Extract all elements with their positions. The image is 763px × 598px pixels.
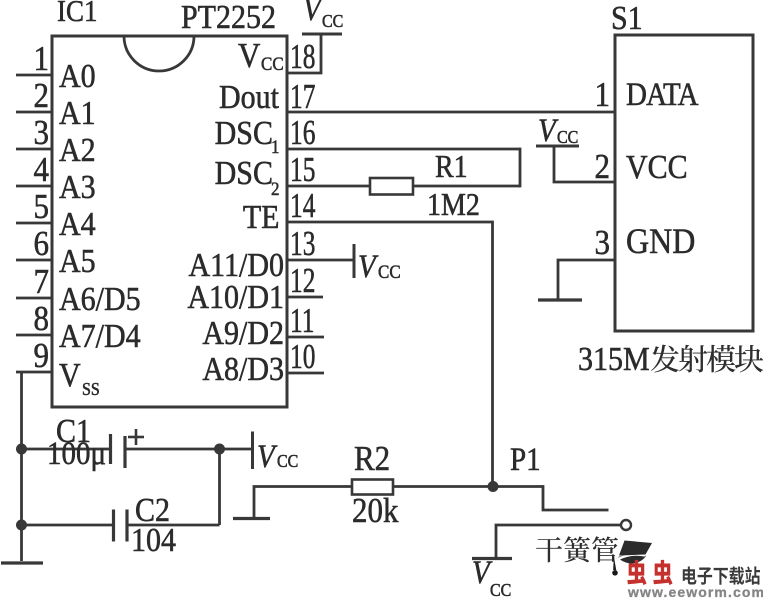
resistor R2 body xyxy=(352,480,393,495)
svg-text:7: 7 xyxy=(34,263,49,301)
svg-text:104: 104 xyxy=(131,521,176,558)
svg-text:GND: GND xyxy=(626,222,695,261)
wire TE(14) horizontal xyxy=(287,221,493,224)
svg-text:16: 16 xyxy=(290,113,315,152)
wire C1 right lead xyxy=(125,448,220,451)
svg-text:3: 3 xyxy=(595,224,610,262)
svg-text:12: 12 xyxy=(290,261,315,300)
svg-text:A2: A2 xyxy=(59,131,96,168)
wire DSC2(15) to R1 left xyxy=(287,185,370,188)
svg-text:17: 17 xyxy=(290,77,315,116)
svg-text:10: 10 xyxy=(290,337,315,376)
junction dot Vss rail / C1 xyxy=(16,444,27,455)
caption reed switch (gan huang guan) xyxy=(536,536,618,562)
power Vcc bar (pin 13) xyxy=(353,244,356,278)
power Vcc bar (reed) xyxy=(472,557,512,560)
ground bar (Vss rail) xyxy=(1,561,43,564)
wire pin13 to Vcc bar xyxy=(287,259,353,262)
pin 16 label DSC1 xyxy=(215,114,280,157)
wire P1 to reed switch arm xyxy=(543,485,609,510)
svg-text:3: 3 xyxy=(34,114,49,152)
svg-text:CC: CC xyxy=(261,53,284,74)
caption 315M transmitter module xyxy=(578,340,763,377)
svg-text:A5: A5 xyxy=(59,242,96,279)
svg-text:5: 5 xyxy=(34,188,49,226)
svg-text:1: 1 xyxy=(595,76,610,114)
wire C1 left lead xyxy=(22,448,111,451)
wire Vcc to S1 pin2 xyxy=(554,146,615,182)
wire R1 right to vertical xyxy=(413,185,520,188)
svg-text:A3: A3 xyxy=(59,168,96,205)
svg-text:A4: A4 xyxy=(59,205,96,242)
svg-text:CC: CC xyxy=(490,580,511,598)
wire Vss(9) vertical rail xyxy=(20,372,23,561)
svg-text:1: 1 xyxy=(34,40,49,78)
svg-text:V: V xyxy=(303,0,324,27)
power Vcc label (C1 node) xyxy=(257,439,298,475)
svg-text:V: V xyxy=(538,113,559,149)
svg-text:A9/D2: A9/D2 xyxy=(202,314,284,351)
node P1 junction dot xyxy=(488,481,499,492)
pin 15 label DSC2 xyxy=(215,154,280,199)
power Vcc label (S1 pin2) xyxy=(538,113,578,149)
power Vcc bar (S1 pin2) xyxy=(536,145,579,148)
svg-text:V: V xyxy=(257,439,278,475)
wire reed switch to Vcc drop xyxy=(496,525,621,558)
svg-text:Dout: Dout xyxy=(219,78,279,115)
pin 7 stub wire xyxy=(16,297,53,300)
svg-text:PT2252: PT2252 xyxy=(181,0,276,35)
svg-text:CC: CC xyxy=(557,127,578,147)
power Vcc bar (C1 node) xyxy=(251,432,254,470)
svg-text:P1: P1 xyxy=(510,442,541,478)
wire S1 pin3 to ground xyxy=(558,260,615,299)
svg-text:CC: CC xyxy=(322,11,343,31)
resistor R1 body xyxy=(370,178,413,195)
svg-text:15: 15 xyxy=(290,150,315,189)
wire vertical DSC1 to R1 net xyxy=(519,148,522,188)
junction dot Vss rail / C2 xyxy=(16,520,27,531)
svg-text:6: 6 xyxy=(34,225,49,263)
svg-text:R1: R1 xyxy=(435,151,468,185)
pin 18 label Vcc xyxy=(238,37,284,75)
svg-text:S1: S1 xyxy=(611,0,643,36)
svg-text:315M: 315M xyxy=(578,340,650,377)
svg-text:CC: CC xyxy=(277,451,298,471)
wire pin18 to Vcc rail xyxy=(287,34,321,73)
pin 9 label Vss xyxy=(59,356,100,399)
wire DSC1(16) horizontal xyxy=(287,148,520,151)
svg-text:DATA: DATA xyxy=(626,77,698,113)
pin 9 stub wire xyxy=(16,371,53,374)
svg-text:IC1: IC1 xyxy=(57,0,97,28)
pin 11 stub wire xyxy=(287,336,324,339)
svg-text:100μ: 100μ xyxy=(47,436,106,472)
module S1 box xyxy=(615,35,753,331)
pin 2 stub wire xyxy=(16,111,53,114)
svg-text:2: 2 xyxy=(271,178,279,199)
reed switch contact circle xyxy=(621,520,631,530)
pin 3 stub wire xyxy=(16,148,53,151)
svg-text:V: V xyxy=(358,249,379,285)
capacitor C2 plates xyxy=(114,510,128,542)
wire Dout(17) to S1 DATA xyxy=(287,111,615,114)
pin 4 stub wire xyxy=(16,185,53,188)
pin 1 stub wire xyxy=(16,74,53,77)
pin 10 stub wire xyxy=(287,372,324,375)
svg-text:13: 13 xyxy=(290,224,315,263)
capacitor C1 plates xyxy=(111,434,126,468)
wire TE vertical down to node P1 xyxy=(491,221,494,487)
C1 polarity plus sign xyxy=(128,429,144,445)
logo chongchong (red) xyxy=(627,560,672,585)
power Vcc bar (top) xyxy=(302,33,342,36)
pin 12 stub wire xyxy=(287,296,323,299)
wire C2 left lead xyxy=(22,524,114,527)
svg-text:VCC: VCC xyxy=(626,148,688,185)
wire C2 right lead xyxy=(127,524,220,527)
svg-text:9: 9 xyxy=(34,337,49,375)
svg-text:2: 2 xyxy=(34,77,49,115)
svg-text:A6/D5: A6/D5 xyxy=(59,280,141,317)
svg-text:11: 11 xyxy=(290,301,314,340)
power Vcc label (reed) xyxy=(472,555,511,598)
svg-text:SS: SS xyxy=(82,379,100,399)
wire R2 left to ground drop xyxy=(254,487,352,519)
svg-text:A0: A0 xyxy=(59,57,96,94)
svg-text:DSC: DSC xyxy=(215,114,273,151)
pin 8 stub wire xyxy=(16,334,53,337)
svg-text:TE: TE xyxy=(243,198,280,235)
wire R2 right to node P1 xyxy=(393,485,543,488)
pin 5 stub wire xyxy=(16,222,53,225)
wire junction to Vcc bar xyxy=(220,448,253,451)
svg-text:4: 4 xyxy=(34,151,49,189)
IC U1 body: IC1 PT2252 DIP-18 outline xyxy=(52,36,287,407)
power Vcc label (top) xyxy=(303,0,343,31)
svg-text:www.eeworm.com: www.eeworm.com xyxy=(627,584,763,598)
svg-text:R2: R2 xyxy=(354,440,390,478)
ground bar (S1 pin3) xyxy=(538,298,582,301)
svg-text:V: V xyxy=(238,37,261,75)
logo graduation cap xyxy=(612,541,652,576)
svg-text:A10/D1: A10/D1 xyxy=(187,278,284,315)
logo text dianzi xiazai zhan xyxy=(683,566,760,584)
svg-text:18: 18 xyxy=(290,37,315,76)
svg-text:20k: 20k xyxy=(352,492,399,530)
svg-text:DSC: DSC xyxy=(215,154,273,191)
svg-text:V: V xyxy=(59,356,81,393)
svg-text:14: 14 xyxy=(290,186,315,225)
junction dot C1/Vcc node xyxy=(214,444,225,455)
svg-text:8: 8 xyxy=(34,300,49,338)
ground bar (R2 left) xyxy=(233,517,270,520)
pin 6 stub wire xyxy=(16,259,53,262)
svg-text:A7/D4: A7/D4 xyxy=(59,317,141,354)
power Vcc label (pin 13) xyxy=(358,249,401,285)
svg-text:1M2: 1M2 xyxy=(427,189,480,223)
wire C2 node up to C1 node xyxy=(218,449,221,525)
svg-text:A1: A1 xyxy=(59,94,96,131)
svg-text:A8/D3: A8/D3 xyxy=(202,350,284,387)
svg-text:CC: CC xyxy=(378,261,401,282)
